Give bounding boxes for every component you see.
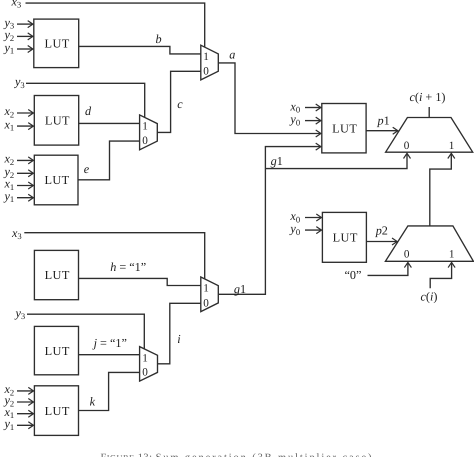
wire y2 input arrow to LUT U8 — [17, 401, 33, 403]
LUT U7 — [34, 326, 78, 374]
svg-text:d: d — [85, 104, 92, 118]
wire e from U3 to mux M2 input 0 — [78, 141, 140, 180]
svg-text:0: 0 — [404, 140, 410, 152]
wire p2 from U5 to mux M5 select — [366, 241, 397, 243]
svg-text:b: b — [156, 32, 162, 46]
svg-text:LUT: LUT — [333, 231, 358, 245]
svg-text:i: i — [177, 332, 181, 346]
LUT U4 — [322, 104, 366, 153]
svg-text:g1: g1 — [271, 154, 283, 168]
svg-text:k: k — [90, 395, 96, 409]
svg-text:LUT: LUT — [332, 121, 357, 135]
wire c(i+1) output stub of M4 — [428, 107, 430, 118]
wire y3 to mux M2 select — [26, 83, 145, 118]
wire x2 input arrow to LUT U3 — [17, 159, 33, 161]
wire a from M1 output to LUT U4 input — [218, 63, 320, 134]
wire x0 input arrow to LUT U5 — [305, 217, 321, 219]
wire x2 input arrow to LUT U2 — [17, 112, 33, 114]
wire y1 input arrow to LUT U1 — [17, 48, 33, 50]
wire k from U8 to mux M6 input 0 — [79, 372, 140, 410]
svg-text:0: 0 — [203, 297, 209, 309]
wire x1 input arrow to LUT U3 — [17, 185, 33, 187]
svg-text:1: 1 — [142, 121, 148, 133]
svg-text:c(i): c(i) — [421, 290, 438, 304]
wire x3 lower to mux M3 select — [24, 233, 204, 280]
svg-text:LUT: LUT — [45, 268, 70, 282]
LUT U3 — [34, 155, 78, 205]
svg-text:LUT: LUT — [45, 37, 70, 51]
svg-text:1: 1 — [203, 51, 209, 63]
mux M2 — [140, 115, 158, 150]
svg-text:LUT: LUT — [45, 114, 70, 128]
wire y3 input arrow to LUT U1 — [17, 23, 33, 25]
LUT U2 — [34, 96, 78, 146]
svg-text:LUT: LUT — [45, 404, 70, 418]
wire d from U2 to mux M2 input 1 — [79, 122, 140, 124]
svg-text:0: 0 — [142, 135, 148, 147]
svg-text:j = “1”: j = “1” — [92, 336, 127, 350]
LUT U8 — [34, 386, 78, 436]
svg-text:e: e — [84, 162, 90, 176]
svg-text:x3: x3 — [11, 226, 22, 241]
wire c(i) to mux M5 input 1 — [430, 263, 451, 289]
svg-text:p2: p2 — [375, 223, 388, 237]
wire y1 input arrow to LUT U8 — [17, 424, 33, 426]
svg-text:g1: g1 — [234, 282, 246, 296]
mux M3 — [201, 277, 219, 312]
wire y2 input arrow to LUT U3 — [17, 172, 33, 174]
mux M6 — [140, 347, 158, 382]
wire x0 input arrow to LUT U4 — [305, 107, 321, 109]
wire g1 from mux M3 output to LUT U4 input — [218, 147, 320, 295]
svg-text:1: 1 — [449, 140, 455, 152]
LUT U1 — [34, 19, 79, 68]
svg-text:0: 0 — [203, 66, 209, 78]
svg-text:y3: y3 — [13, 75, 25, 90]
svg-text:LUT: LUT — [44, 173, 69, 187]
wire y0 input arrow to LUT U4 — [305, 120, 321, 122]
svg-text:c(i + 1): c(i + 1) — [410, 90, 446, 104]
wire x2 input arrow to LUT U8 — [17, 390, 33, 392]
svg-text:y3: y3 — [14, 306, 26, 321]
wire h from U6 to mux M3 input 1 — [79, 278, 201, 285]
svg-text:0: 0 — [404, 249, 410, 261]
wire x1 input arrow to LUT U2 — [17, 125, 33, 127]
wire x1 input arrow to LUT U8 — [17, 413, 33, 415]
mux M5 carry trapezoid — [385, 226, 473, 261]
LUT U5 — [322, 212, 366, 262]
svg-text:a: a — [229, 48, 235, 62]
mux M1 — [201, 45, 219, 80]
wire x3 top to mux M1 select — [26, 3, 205, 48]
svg-text:“0”: “0” — [345, 268, 362, 282]
wire p1 from U4 to mux M4 select — [366, 130, 398, 132]
svg-text:1: 1 — [203, 283, 209, 295]
svg-text:LUT: LUT — [45, 344, 70, 358]
svg-text:1: 1 — [142, 352, 148, 364]
svg-text:1: 1 — [449, 249, 455, 261]
wire c from M2 output to mux M1 input 0 — [157, 71, 201, 132]
wire y1 input arrow to LUT U3 — [17, 197, 33, 199]
wire b from U1 to mux M1 input 1 — [79, 46, 201, 54]
wire y3 lower to mux M6 select — [27, 314, 144, 350]
svg-text:c: c — [177, 97, 183, 111]
wire i from mux M6 output to mux M3 input 0 — [158, 303, 201, 364]
LUT U6 — [34, 250, 78, 299]
wire g1 branch to mux M4 input 0 — [265, 154, 407, 169]
svg-text:0: 0 — [142, 367, 148, 379]
wire constant 0 to mux M5 input 0 — [368, 263, 408, 276]
wire from mux M5 output to mux M4 input 1 — [430, 154, 452, 226]
svg-text:FIGURE 13: Sum generation (3B: FIGURE 13: Sum generation (3B multiplier… — [101, 453, 378, 457]
svg-text:x3: x3 — [11, 0, 22, 10]
wire y0 input arrow to LUT U5 — [305, 229, 321, 231]
svg-text:h = “1”: h = “1” — [110, 260, 146, 274]
mux M4 carry trapezoid — [386, 118, 473, 153]
wire j from U7 to mux M6 input 1 — [79, 354, 140, 356]
svg-text:p1: p1 — [377, 113, 390, 127]
svg-text:x1: x1 — [4, 117, 15, 132]
wire y2 input arrow to LUT U1 — [17, 35, 33, 37]
